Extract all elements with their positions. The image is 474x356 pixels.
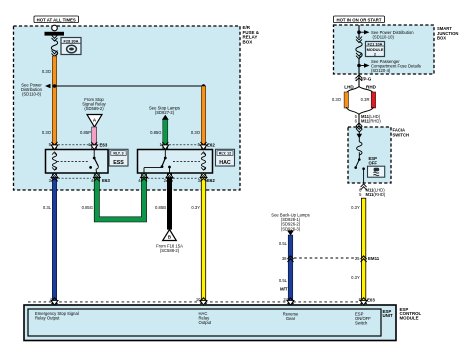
svg-text:Output: Output xyxy=(199,320,212,325)
svg-text:F21 10A: F21 10A xyxy=(368,41,383,46)
svg-text:E62: E62 xyxy=(207,178,215,183)
svg-text:RLY. 12: RLY. 12 xyxy=(219,152,231,156)
svg-text:0.3Y: 0.3Y xyxy=(191,205,200,210)
svg-text:BOX: BOX xyxy=(437,36,446,41)
svg-text:MODULE: MODULE xyxy=(400,316,419,321)
svg-text:B: B xyxy=(168,235,171,240)
svg-text:E03: E03 xyxy=(367,297,375,302)
svg-text:(SD120-4): (SD120-4) xyxy=(371,68,391,73)
svg-text:E63: E63 xyxy=(102,178,110,183)
svg-text:HOT AT ALL TIMES: HOT AT ALL TIMES xyxy=(37,17,76,22)
svg-text:(SD589-2): (SD589-2) xyxy=(84,106,104,111)
svg-text:0.5L: 0.5L xyxy=(279,278,288,283)
svg-text:UNIT: UNIT xyxy=(383,313,394,318)
svg-text:0.3O: 0.3O xyxy=(42,69,52,74)
svg-text:0.3Y: 0.3Y xyxy=(351,205,360,210)
svg-text:(SD110-8): (SD110-8) xyxy=(22,92,42,97)
svg-text:M11(RHD): M11(RHD) xyxy=(361,119,381,124)
svg-text:(SD110-10): (SD110-10) xyxy=(373,34,395,39)
svg-text:Relay Output: Relay Output xyxy=(35,316,60,321)
svg-text:0.85G: 0.85G xyxy=(150,130,161,135)
svg-text:RHD: RHD xyxy=(366,85,377,90)
svg-text:0.3Y: 0.3Y xyxy=(351,275,360,280)
svg-text:0.85G: 0.85G xyxy=(82,205,93,210)
svg-text:0.5L: 0.5L xyxy=(279,241,288,246)
svg-text:(SD927-2): (SD927-2) xyxy=(155,110,175,115)
svg-text:I/P-G: I/P-G xyxy=(361,77,372,82)
svg-text:E62: E62 xyxy=(207,142,215,147)
svg-text:RLY. 3: RLY. 3 xyxy=(113,152,123,156)
svg-text:E63: E63 xyxy=(100,142,108,147)
svg-text:Switch: Switch xyxy=(355,320,368,325)
svg-text:5: 5 xyxy=(359,192,362,197)
svg-text:F28 30A: F28 30A xyxy=(64,39,79,44)
svg-text:HOT IN ON OR START: HOT IN ON OR START xyxy=(336,17,381,22)
svg-text:M/T: M/T xyxy=(280,287,288,292)
svg-text:SWITCH: SWITCH xyxy=(393,132,410,137)
svg-text:BOX: BOX xyxy=(243,39,253,44)
svg-text:0.3O: 0.3O xyxy=(191,130,201,135)
svg-text:0.3L: 0.3L xyxy=(43,205,52,210)
svg-text:M11(RHD): M11(RHD) xyxy=(366,192,386,197)
svg-text:Gear: Gear xyxy=(286,316,296,321)
svg-text:38: 38 xyxy=(282,256,287,261)
svg-text:(SC588-2): (SC588-2) xyxy=(160,248,180,253)
svg-text:0.3O: 0.3O xyxy=(332,97,342,102)
svg-text:0.85B: 0.85B xyxy=(155,205,166,210)
svg-text:0.3R: 0.3R xyxy=(361,97,370,102)
svg-text:HAC: HAC xyxy=(219,160,231,166)
svg-text:6: 6 xyxy=(355,119,358,124)
svg-text:EM11: EM11 xyxy=(368,256,380,261)
svg-text:ESS: ESS xyxy=(113,160,124,166)
svg-text:0.3O: 0.3O xyxy=(42,130,52,135)
svg-text:OFF: OFF xyxy=(369,161,378,166)
svg-text:25: 25 xyxy=(355,256,360,261)
svg-text:LHD: LHD xyxy=(344,85,354,90)
svg-text:0.85P: 0.85P xyxy=(80,130,91,135)
